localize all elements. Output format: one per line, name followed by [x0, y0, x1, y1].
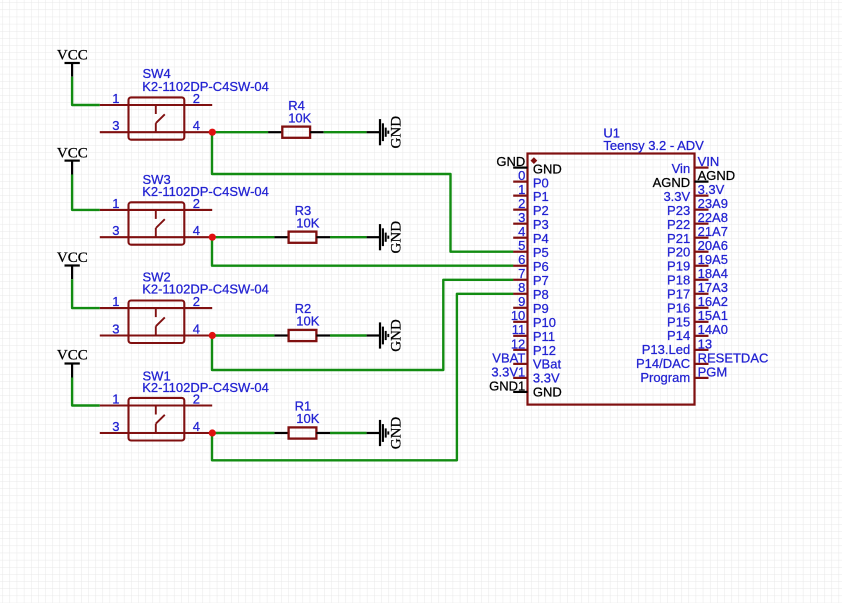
U1 left pin 3: [513, 210, 549, 232]
SW2 pin 3 label: [112, 321, 119, 336]
SW3 value label: [142, 184, 269, 199]
ground GND symbol row SW3: [367, 221, 405, 254]
R1 value label 10K: [296, 411, 319, 426]
svg-text:7: 7: [518, 266, 525, 281]
svg-text:P7: P7: [533, 273, 549, 288]
svg-text:P12: P12: [533, 343, 556, 358]
wire R2 to GND: [330, 334, 367, 336]
U1 right pin 21A7: [667, 224, 728, 246]
svg-text:10K: 10K: [296, 314, 319, 329]
svg-text:3: 3: [518, 210, 525, 225]
SW1 pin 1 label: [112, 392, 119, 407]
junction node at SW1 pin 4: [209, 429, 216, 436]
SW1 value label: [142, 380, 269, 395]
wire VCC to SW4 pin 1: [72, 77, 100, 105]
SW4 name label: [143, 66, 171, 81]
U1 left pin GND: [496, 154, 561, 176]
svg-text:1: 1: [112, 196, 119, 211]
power VCC symbol for SW4: [57, 48, 88, 77]
U1 left pin GND1: [489, 378, 562, 399]
SW4 value label: [142, 79, 269, 94]
svg-text:GND: GND: [389, 319, 405, 352]
U1 left pin 6: [513, 252, 549, 274]
SW1 pin 4 label: [193, 419, 200, 434]
svg-text:P3: P3: [533, 217, 549, 232]
svg-text:GND1: GND1: [489, 378, 525, 393]
ground GND symbol row SW2: [367, 319, 405, 352]
R3 name label: [295, 203, 312, 218]
U1 left pin 7: [513, 266, 549, 288]
svg-text:VBAT: VBAT: [492, 350, 525, 365]
wire SW2 pin4 to U1 P7: [212, 280, 513, 370]
svg-text:4: 4: [193, 223, 200, 238]
resistor R4 10K: [268, 127, 324, 138]
svg-text:4: 4: [193, 118, 200, 133]
svg-text:20A6: 20A6: [698, 238, 728, 253]
R2 name label: [295, 301, 312, 316]
U1 left pin 5: [513, 238, 549, 260]
U1 left pin 1: [513, 182, 549, 204]
svg-text:K2-1102DP-C4SW-04: K2-1102DP-C4SW-04: [142, 281, 269, 296]
op-amp U1 Teensy 3.2 - ADV outline: [528, 154, 695, 405]
svg-text:15A1: 15A1: [698, 308, 728, 323]
U1 left pin VBAT: [492, 350, 561, 371]
U1 right pin AGND: [653, 168, 736, 190]
svg-text:3.3V1: 3.3V1: [491, 364, 525, 379]
U1 left pin 11: [512, 322, 555, 344]
svg-text:1: 1: [518, 182, 525, 197]
switch SW3 K2-1102DP-C4SW-04: [100, 202, 212, 244]
svg-text:9: 9: [518, 294, 525, 309]
R2 value label 10K: [296, 314, 319, 329]
svg-text:GND: GND: [389, 221, 405, 254]
wire VCC to SW1 pin 1: [72, 378, 100, 406]
svg-text:AGND: AGND: [698, 168, 736, 183]
U1 right pin VIN: [672, 154, 720, 176]
svg-text:Vin: Vin: [672, 161, 691, 176]
svg-text:4: 4: [193, 321, 200, 336]
resistor R3 10K: [274, 232, 330, 243]
svg-text:2: 2: [193, 294, 200, 309]
U1 right pin 3.3V: [663, 182, 724, 204]
SW2 pin 2 label: [193, 294, 200, 309]
svg-text:10K: 10K: [296, 411, 319, 426]
svg-text:1: 1: [112, 392, 119, 407]
svg-text:3: 3: [112, 223, 119, 238]
svg-text:PGM: PGM: [698, 364, 728, 379]
svg-text:3.3V: 3.3V: [698, 182, 725, 197]
svg-text:P23: P23: [667, 203, 690, 218]
U1 left pin 8: [513, 280, 549, 302]
wire SW4 pin 4 to R4: [212, 131, 268, 133]
svg-text:P10: P10: [533, 315, 556, 330]
SW2 name label: [143, 269, 171, 284]
wire VCC to SW2 pin 1: [72, 279, 100, 308]
svg-text:10K: 10K: [288, 110, 311, 125]
wire SW3 pin 4 to R3: [212, 236, 274, 238]
power VCC symbol for SW1: [57, 348, 88, 378]
svg-text:GND: GND: [389, 417, 405, 450]
U1 right pin PGM: [640, 364, 727, 385]
svg-text:10: 10: [511, 308, 525, 323]
U1 left pin 4: [513, 224, 549, 246]
svg-text:RESETDAC: RESETDAC: [698, 350, 769, 365]
svg-text:VCC: VCC: [57, 146, 88, 162]
svg-text:P8: P8: [533, 287, 549, 302]
U1 right pin RESETDAC: [636, 350, 768, 371]
SW4 pin 3 label: [112, 118, 119, 133]
U1 right pin 15A1: [667, 308, 728, 329]
U1 left pin 10: [511, 308, 556, 330]
U1 right pin 16A2: [667, 294, 728, 315]
R3 value label 10K: [296, 215, 319, 230]
svg-text:21A7: 21A7: [698, 224, 728, 239]
switch SW4 K2-1102DP-C4SW-04: [100, 97, 212, 139]
wire SW1 pin4 to U1 P8: [212, 294, 513, 461]
SW4 pin 1 label: [112, 91, 119, 106]
svg-text:12: 12: [511, 336, 525, 351]
wire SW2 pin 4 to R2: [212, 334, 274, 336]
SW1 pin 2 label: [193, 392, 200, 407]
U1 right pin 19A5: [667, 252, 728, 274]
svg-text:Teensy 3.2 - ADV: Teensy 3.2 - ADV: [603, 138, 704, 153]
SW2 pin 1 label: [112, 294, 119, 309]
svg-text:P6: P6: [533, 259, 549, 274]
U1 left pin 3.3V1: [491, 364, 560, 385]
SW2 pin 4 label: [193, 321, 200, 336]
wire R1 to GND: [330, 432, 367, 434]
U1 left pin 2: [513, 196, 549, 218]
U1 right pin 20A6: [667, 238, 728, 260]
svg-text:GND: GND: [533, 385, 562, 400]
svg-text:4: 4: [518, 224, 525, 239]
svg-text:P0: P0: [533, 175, 549, 190]
svg-text:P16: P16: [667, 300, 690, 315]
U1 left pin 12: [511, 336, 556, 358]
wire SW3 pin4 to U1 P6: [212, 237, 513, 266]
svg-text:VCC: VCC: [57, 348, 88, 364]
svg-text:14A0: 14A0: [698, 322, 728, 337]
svg-text:22A8: 22A8: [698, 210, 728, 225]
svg-text:P11: P11: [533, 329, 555, 344]
svg-text:P18: P18: [667, 273, 690, 288]
power VCC symbol for SW3: [57, 146, 88, 175]
svg-text:P13.Led: P13.Led: [642, 342, 690, 357]
ground GND symbol row SW1: [367, 417, 405, 450]
junction node at SW2 pin 4: [209, 332, 216, 339]
wire SW1 pin 4 to R1: [212, 432, 274, 434]
svg-text:GND: GND: [533, 161, 562, 176]
U1 left pin 0: [513, 168, 549, 190]
svg-text:P19: P19: [667, 259, 690, 274]
svg-text:GND: GND: [389, 116, 405, 149]
svg-text:VIN: VIN: [698, 154, 720, 169]
U1 right pin 22A8: [667, 210, 728, 232]
SW4 pin 4 label: [193, 118, 200, 133]
R1 name label: [295, 399, 312, 414]
U1 right pin 14A0: [667, 322, 728, 343]
svg-text:P17: P17: [667, 286, 690, 301]
svg-text:K2-1102DP-C4SW-04: K2-1102DP-C4SW-04: [142, 79, 269, 94]
svg-text:5: 5: [518, 238, 525, 253]
svg-text:19A5: 19A5: [698, 252, 728, 267]
svg-text:3: 3: [112, 118, 119, 133]
svg-text:11: 11: [512, 322, 526, 337]
SW3 pin 4 label: [193, 223, 200, 238]
U1 right pin 17A3: [667, 280, 728, 301]
svg-text:P14: P14: [667, 328, 690, 343]
switch SW2 K2-1102DP-C4SW-04: [100, 301, 212, 344]
svg-text:1: 1: [112, 294, 119, 309]
svg-text:16A2: 16A2: [698, 294, 728, 309]
SW1 name label: [143, 369, 171, 384]
svg-text:VCC: VCC: [57, 48, 88, 64]
wire R3 to GND: [330, 236, 367, 238]
svg-text:P21: P21: [667, 231, 690, 246]
svg-text:3: 3: [112, 321, 119, 336]
resistor R2 10K: [274, 330, 330, 341]
svg-text:GND: GND: [496, 154, 525, 169]
R4 value label 10K: [288, 110, 311, 125]
svg-text:Program: Program: [640, 370, 690, 385]
SW3 pin 2 label: [193, 196, 200, 211]
svg-text:P4: P4: [533, 231, 549, 246]
svg-text:P1: P1: [533, 189, 549, 204]
svg-text:2: 2: [518, 196, 525, 211]
svg-text:K2-1102DP-C4SW-04: K2-1102DP-C4SW-04: [142, 184, 269, 199]
svg-text:0: 0: [518, 168, 525, 183]
svg-text:10K: 10K: [296, 215, 319, 230]
svg-text:4: 4: [193, 419, 200, 434]
svg-text:8: 8: [518, 280, 525, 295]
ground GND symbol row SW4: [367, 116, 405, 149]
svg-text:P22: P22: [667, 217, 690, 232]
svg-text:3: 3: [112, 419, 119, 434]
SW3 pin 1 label: [112, 196, 119, 211]
U1 right pin 23A9: [667, 196, 728, 218]
svg-text:P20: P20: [667, 245, 690, 260]
SW2 value label: [142, 281, 269, 296]
wire SW4 pin4 to U1 P5: [212, 132, 513, 252]
svg-text:3.3V: 3.3V: [533, 371, 560, 386]
junction node at SW3 pin 4: [209, 234, 216, 241]
svg-text:23A9: 23A9: [698, 196, 728, 211]
svg-text:13: 13: [698, 336, 712, 351]
SW3 pin 3 label: [112, 223, 119, 238]
svg-text:P5: P5: [533, 245, 549, 260]
U1 right pin 13: [642, 336, 712, 357]
svg-text:17A3: 17A3: [698, 280, 728, 295]
svg-text:VBat: VBat: [533, 357, 562, 372]
svg-text:1: 1: [112, 91, 119, 106]
SW1 pin 3 label: [112, 419, 119, 434]
svg-text:AGND: AGND: [653, 175, 691, 190]
U1 name label: [603, 125, 620, 140]
wire VCC to SW3 pin 1: [72, 175, 100, 210]
switch SW1 K2-1102DP-C4SW-04: [100, 398, 212, 441]
wire R4 to GND: [324, 131, 367, 133]
junction node at SW4 pin 4: [209, 129, 216, 136]
svg-text:P15: P15: [667, 314, 690, 329]
power VCC symbol for SW2: [57, 250, 88, 279]
resistor R1 10K: [274, 427, 330, 438]
svg-text:P14/DAC: P14/DAC: [636, 356, 690, 371]
U1 value label Teensy 3.2 - ADV: [603, 138, 704, 153]
svg-text:K2-1102DP-C4SW-04: K2-1102DP-C4SW-04: [142, 380, 269, 395]
svg-text:P2: P2: [533, 203, 549, 218]
U1 right pin 18A4: [667, 266, 728, 287]
svg-text:6: 6: [518, 252, 525, 267]
svg-text:VCC: VCC: [57, 250, 88, 266]
SW3 name label: [143, 172, 171, 187]
R4 name label: [288, 98, 305, 113]
svg-text:P9: P9: [533, 301, 549, 316]
svg-text:18A4: 18A4: [698, 266, 728, 281]
SW4 pin 2 label: [193, 91, 200, 106]
svg-text:3.3V: 3.3V: [663, 189, 690, 204]
U1 left pin 9: [513, 294, 549, 316]
